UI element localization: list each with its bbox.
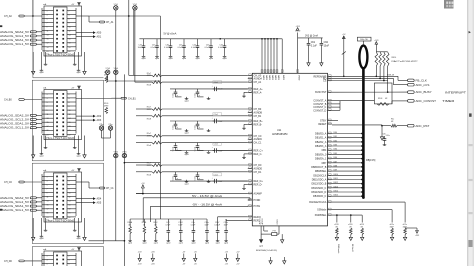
svg-text:agnd: agnd (128, 243, 132, 245)
svg-text:5: 5 (47, 18, 48, 20)
svg-text:15: 15 (47, 205, 49, 207)
svg-text:REF_D-: REF_D- (254, 184, 263, 187)
svg-text:2: 2 (69, 94, 70, 96)
svg-text:agnd: agnd (142, 58, 146, 60)
svg-text:19: 19 (47, 130, 49, 132)
svg-text:VTh1: VTh1 (114, 4, 118, 6)
svg-text:1: 1 (47, 94, 48, 96)
svg-text:DB9/BSEL: DB9/BSEL (315, 170, 327, 173)
svg-text:+5Vx: +5Vx (386, 135, 390, 137)
svg-text:DB6: DB6 (334, 157, 338, 159)
svg-text:agnd: agnd (185, 101, 189, 103)
svg-text:C1x0: C1x0 (195, 126, 197, 130)
svg-text:10: 10 (69, 27, 71, 29)
svg-text:1: 1 (47, 176, 48, 178)
svg-text:4: 4 (69, 180, 70, 182)
svg-text:8: 8 (69, 188, 70, 190)
svg-text:TIMER: TIMER (442, 99, 455, 103)
svg-text:agnd: agnd (77, 238, 81, 240)
svg-text:8168_08: 8168_08 (387, 74, 394, 76)
svg-text:C47: C47 (138, 44, 141, 46)
svg-text:DB12: DB12 (334, 182, 339, 184)
svg-text:49R9: 49R9 (147, 165, 151, 167)
svg-text:agnd: agnd (39, 72, 43, 74)
svg-text:+: + (212, 147, 213, 149)
svg-text:DB15/DO_C: DB15/DO_C (313, 195, 327, 198)
svg-text:ACKD1: ACKD1 (258, 218, 261, 224)
svg-text:DB4: DB4 (322, 149, 327, 152)
svg-text:DB12/SDO_B: DB12/SDO_B (312, 183, 327, 186)
svg-text:REF_B-: REF_B- (254, 123, 263, 126)
svg-text:agnd: agnd (223, 58, 227, 60)
svg-text:4: 4 (69, 14, 70, 16)
svg-text:C1x1: C1x1 (214, 114, 218, 116)
svg-text:DB5: DB5 (334, 153, 338, 155)
svg-text:agnd: agnd (185, 183, 189, 185)
svg-text:SSMode: SSMode (317, 209, 327, 212)
svg-text:ANALOG_SCL1_5V: ANALOG_SCL1_5V (0, 127, 30, 130)
svg-text:14: 14 (69, 118, 71, 120)
svg-text:CH_A1: CH_A1 (106, 21, 114, 24)
svg-text:DB13/SDO_C: DB13/SDO_C (311, 187, 326, 190)
svg-text:2: 2 (69, 176, 70, 178)
svg-text:REF_A-: REF_A- (254, 91, 263, 94)
svg-text:AVDD: AVDD (262, 75, 265, 81)
svg-text:C1x0: C1x0 (195, 93, 197, 97)
svg-text:74xx-17SGT-LD-S0x0: 74xx-17SGT-LD-S0x0 (46, 53, 75, 56)
svg-text:CH_B0: CH_B0 (4, 99, 12, 102)
svg-text:FT9: FT9 (273, 231, 276, 233)
svg-text:R103: R103 (378, 98, 382, 100)
svg-text:agnd: agnd (77, 72, 81, 74)
svg-text:agnd: agnd (154, 243, 158, 245)
svg-text:DB7: DB7 (334, 161, 338, 163)
svg-text:BLM2SHE(7x2xSD1D): BLM2SHE(7x2xSD1D) (256, 250, 277, 252)
svg-text:3: 3 (47, 259, 48, 261)
svg-text:ANALOG_SCL2_5V: ANALOG_SCL2_5V (0, 118, 30, 121)
svg-text:ADC_CONVST: ADC_CONVST (416, 99, 437, 103)
svg-text:3: 3 (47, 98, 48, 100)
svg-text:ANALOG_SDA2_5V: ANALOG_SDA2_5V (0, 197, 30, 200)
svg-text:agnd: agnd (39, 156, 43, 158)
svg-text:4: 4 (69, 98, 70, 100)
svg-text:HVDD: HVDD (254, 199, 261, 202)
svg-text:C1x0: C1x0 (173, 126, 175, 130)
svg-text:AD2: AD2 (97, 115, 102, 118)
svg-text:C43: C43 (206, 44, 209, 46)
svg-text:74xx-17SGT-LD-S0x0: 74xx-17SGT-LD-S0x0 (46, 219, 75, 222)
svg-text:agnd: agnd (77, 156, 81, 158)
svg-text:CH_A0: CH_A0 (4, 15, 12, 18)
svg-text:3: 3 (47, 14, 48, 16)
svg-text:C1x0: C1x0 (195, 176, 197, 180)
svg-text:CONVST_D: CONVST_D (313, 109, 326, 112)
svg-text:DB8/DOUT_B: DB8/DOUT_B (311, 166, 326, 169)
svg-text:0.1uF: 0.1uF (311, 44, 318, 47)
svg-text:-5V - -16.5V @ 4mA: -5V - -16.5V @ 4mA (192, 203, 223, 206)
svg-text:DB2: DB2 (334, 140, 338, 142)
svg-text:19: 19 (47, 213, 49, 215)
svg-text:49R9: 49R9 (147, 109, 151, 111)
svg-text:AVDD: AVDD (265, 75, 268, 81)
svg-text:VThy: VThy (108, 124, 112, 126)
svg-text:DB14: DB14 (334, 191, 339, 193)
svg-text:18: 18 (69, 43, 71, 45)
svg-text:16: 16 (69, 39, 71, 41)
svg-text:ANALOG_SCL2_5V: ANALOG_SCL2_5V (0, 35, 30, 38)
svg-text:+: + (212, 117, 213, 119)
svg-text:C1x1: C1x1 (214, 144, 218, 146)
svg-text:RANGE/XCLKA: RANGE/XCLKA (309, 201, 326, 204)
svg-text:C1x0: C1x0 (173, 147, 175, 151)
svg-text:49R9: 49R9 (104, 74, 108, 76)
svg-text:12: 12 (69, 114, 71, 116)
svg-text:6: 6 (69, 184, 70, 186)
svg-text:16: 16 (69, 205, 71, 207)
svg-text:1: 1 (47, 255, 48, 257)
svg-text:AD5: AD5 (97, 202, 102, 205)
svg-text:18: 18 (69, 126, 71, 128)
svg-text:ADC_nCS: ADC_nCS (416, 83, 430, 87)
svg-text:49R9: 49R9 (147, 136, 151, 138)
svg-text:CH_D0: CH_D0 (4, 260, 13, 263)
svg-text:PAR/BSEL: PAR/BSEL (315, 214, 327, 217)
svg-text:C1x0: C1x0 (173, 93, 175, 97)
svg-text:6: 6 (69, 263, 70, 265)
svg-text:11: 11 (47, 197, 49, 199)
svg-text:RB Hw/M: RB Hw/M (351, 244, 353, 252)
svg-text:DB4: DB4 (334, 149, 338, 151)
svg-text:DB14/SDO_D: DB14/SDO_D (311, 191, 326, 194)
svg-text:ACKD2: ACKD2 (261, 218, 264, 224)
svg-text:14: 14 (69, 35, 71, 37)
svg-text:BUSY/INT: BUSY/INT (315, 91, 327, 94)
svg-text:20: 20 (69, 213, 71, 215)
svg-text:ANALOG_SDA2_5V: ANALOG_SDA2_5V (0, 31, 30, 34)
svg-text:7: 7 (47, 22, 48, 24)
svg-text:ANALOG_SCL1_5V: ANALOG_SCL1_5V (0, 43, 30, 46)
svg-text:VTh6: VTh6 (122, 152, 126, 154)
svg-text:DB2/D2_A: DB2/D2_A (315, 141, 327, 144)
svg-text:DVDD: DVDD (295, 31, 301, 33)
svg-text:7: 7 (47, 188, 48, 190)
svg-text:9: 9 (47, 193, 48, 195)
svg-text:ANALOG_SCL1_5V: ANALOG_SCL1_5V (0, 209, 30, 212)
svg-text:5: 5 (47, 184, 48, 186)
svg-text:ADC_BUSY: ADC_BUSY (416, 90, 432, 94)
svg-text:ANALOG_SCL2_5V: ANALOG_SCL2_5V (0, 201, 30, 204)
svg-text:C44: C44 (192, 44, 195, 46)
svg-text:agnd: agnd (259, 245, 263, 247)
svg-text:15: 15 (47, 39, 49, 41)
svg-text:13: 13 (47, 201, 49, 203)
svg-text:C45: C45 (179, 44, 182, 46)
svg-text:74xx-17SGT-LD-S0x0: 74xx-17SGT-LD-S0x0 (46, 137, 75, 140)
svg-text:agnd: agnd (185, 154, 189, 156)
svg-text:VTh2: VTh2 (133, 4, 137, 6)
svg-text:20: 20 (69, 47, 71, 49)
svg-text:13: 13 (47, 35, 49, 37)
svg-text:agnd: agnd (209, 58, 213, 60)
svg-text:11: 11 (47, 31, 49, 33)
svg-text:agnd: agnd (205, 243, 209, 245)
svg-text:agnd: agnd (166, 243, 170, 245)
svg-text:19: 19 (47, 47, 49, 49)
svg-text:DB13: DB13 (334, 186, 339, 188)
svg-text:D80x YEL: D80x YEL (360, 39, 368, 41)
svg-text:15: 15 (47, 122, 49, 124)
svg-text:2: 2 (69, 255, 70, 257)
svg-text:AD1: AD1 (97, 36, 102, 39)
svg-text:12: 12 (69, 197, 71, 199)
svg-text:DB8: DB8 (334, 165, 338, 167)
svg-text:+3V3: +3V3 (374, 40, 378, 42)
svg-text:CH_C0: CH_C0 (4, 181, 13, 184)
svg-text:20: 20 (69, 130, 71, 132)
svg-text:10: 10 (69, 110, 71, 112)
svg-text:5V @ x0mA: 5V @ x0mA (164, 33, 177, 36)
svg-text:agnd: agnd (39, 238, 43, 240)
svg-text:1: 1 (47, 10, 48, 12)
svg-text:DB1/D1_A: DB1/D1_A (315, 137, 327, 140)
svg-text:5: 5 (47, 263, 48, 265)
svg-text:9: 9 (47, 27, 48, 29)
svg-text:RN10: RN10 (392, 57, 397, 59)
svg-text:R1x8: R1x8 (147, 85, 151, 87)
svg-text:HVSS: HVSS (254, 205, 261, 208)
svg-text:17: 17 (47, 209, 49, 211)
svg-text:DB6/DA_1: DB6/DA_1 (315, 158, 327, 161)
svg-text:2: 2 (69, 10, 70, 12)
svg-text:9: 9 (47, 110, 48, 112)
svg-text:agnd: agnd (142, 243, 146, 245)
svg-text:5V - 16.5V @ 4mA: 5V - 16.5V @ 4mA (192, 195, 223, 198)
svg-text:ASAMP: ASAMP (254, 193, 263, 196)
svg-text:RACTx4DYELW7P: RACTx4DYELW7P (392, 60, 419, 63)
svg-text:10uF: 10uF (324, 44, 330, 47)
svg-text:+: + (212, 178, 213, 180)
svg-text:CH_D1: CH_D1 (254, 171, 263, 174)
svg-text:8: 8 (69, 22, 70, 24)
svg-text:ANALOG_SDA2_5V: ANALOG_SDA2_5V (0, 114, 30, 117)
svg-text:RESET: RESET (318, 123, 327, 126)
svg-text:agnd: agnd (216, 243, 220, 245)
svg-text:13: 13 (47, 118, 49, 120)
svg-text:C42: C42 (219, 44, 222, 46)
svg-text:C1x1: C1x1 (214, 174, 218, 176)
svg-text:agnd: agnd (169, 58, 173, 60)
svg-text:3V3 @ 2mA: 3V3 @ 2mA (305, 35, 318, 38)
svg-text:agnd: agnd (179, 243, 183, 245)
svg-text:VTh4: VTh4 (114, 68, 118, 70)
svg-text:C1x0: C1x0 (195, 147, 197, 151)
svg-text:C1x1: C1x1 (214, 82, 218, 84)
svg-text:8: 8 (69, 106, 70, 108)
svg-text:AVDD: AVDD (271, 75, 274, 81)
svg-text:AD4: AD4 (97, 198, 102, 201)
svg-text:INTERRUPT: INTERRUPT (445, 91, 466, 95)
svg-text:DB10: DB10 (334, 174, 339, 176)
svg-text:DCKD: DCKD (277, 219, 279, 225)
svg-text:AVDD: AVDD (274, 75, 277, 81)
svg-text:agnd: agnd (191, 243, 195, 245)
svg-text:CH_C1: CH_C1 (106, 187, 115, 190)
svg-text:10: 10 (69, 193, 71, 195)
svg-text:C1x0: C1x0 (173, 176, 175, 180)
svg-text:CH_B1: CH_B1 (128, 97, 136, 100)
svg-text:DVDD: DVDD (298, 75, 300, 81)
svg-text:DB11: DB11 (334, 178, 338, 180)
svg-text:18: 18 (69, 209, 71, 211)
svg-text:17: 17 (47, 126, 49, 128)
svg-text:agnd: agnd (196, 58, 200, 60)
svg-text:REF_C-: REF_C- (254, 153, 263, 156)
svg-text:DB11/SDO_A: DB11/SDO_A (312, 179, 327, 182)
svg-text:DB5/DA_0: DB5/DA_0 (315, 153, 327, 156)
svg-text:agnd: agnd (155, 58, 159, 60)
svg-text:ADC_RST: ADC_RST (415, 124, 429, 128)
svg-text:CH_A1: CH_A1 (254, 81, 262, 84)
svg-text:R1x8: R1x8 (147, 145, 151, 147)
svg-text:DB3: DB3 (334, 145, 338, 147)
svg-text:DB15: DB15 (334, 195, 339, 197)
svg-text:49R9: 49R9 (147, 75, 151, 77)
svg-text:CH_B1: CH_B1 (254, 115, 262, 118)
svg-text:C47: C47 (152, 44, 155, 46)
svg-text:DB9: DB9 (334, 170, 338, 172)
svg-text:DB0: DB0 (334, 132, 338, 134)
svg-text:R1x8: R1x8 (147, 174, 151, 176)
svg-text:ANALOG_SDA1_5V: ANALOG_SDA1_5V (0, 39, 30, 42)
svg-text:AVDD: AVDD (277, 75, 280, 81)
svg-text:agnd: agnd (224, 243, 228, 245)
svg-text:DB[0:15]: DB[0:15] (366, 159, 376, 162)
svg-text:AD0: AD0 (97, 32, 102, 35)
svg-text:VThx: VThx (99, 124, 103, 126)
svg-text:R1x8: R1x8 (147, 118, 151, 120)
svg-text:agnd: agnd (185, 133, 189, 135)
svg-text:+3V3: +3V3 (295, 26, 299, 28)
svg-text:AVDD: AVDD (268, 75, 271, 81)
svg-text:3: 3 (47, 180, 48, 182)
svg-text:5: 5 (47, 102, 48, 104)
svg-text:11: 11 (47, 114, 49, 116)
svg-text:12: 12 (69, 31, 71, 33)
svg-text:AD3: AD3 (97, 119, 102, 122)
svg-text:C46: C46 (165, 44, 168, 46)
svg-text:14: 14 (69, 201, 71, 203)
svg-text:DB0/D0_A: DB0/D0_A (315, 133, 327, 136)
svg-text:DB3/D3_A: DB3/D3_A (315, 145, 327, 148)
svg-text:6: 6 (69, 18, 70, 20)
svg-text:U11: U11 (277, 129, 282, 132)
svg-text:16: 16 (69, 122, 71, 124)
svg-text:+: + (212, 85, 213, 87)
svg-text:7: 7 (47, 106, 48, 108)
svg-text:6: 6 (69, 102, 70, 104)
svg-text:ADS8548SPM: ADS8548SPM (272, 133, 287, 136)
svg-text:4: 4 (69, 259, 70, 261)
svg-text:DB1: DB1 (334, 136, 338, 138)
svg-text:REFIO: REFIO (254, 216, 261, 219)
svg-text:CH_C1: CH_C1 (254, 142, 263, 145)
svg-text:agnd: agnd (182, 58, 186, 60)
svg-text:AVDD: AVDD (282, 75, 285, 81)
svg-text:CS: CS (323, 80, 327, 83)
svg-text:ANALOG_SDA1_5V: ANALOG_SDA1_5V (0, 205, 30, 208)
svg-text:+3V3: +3V3 (415, 235, 419, 237)
svg-text:VTh3: VTh3 (106, 68, 110, 70)
svg-text:FWR/stable: FWR/stable (337, 244, 340, 253)
svg-text:ANALOG_SDA1_5V: ANALOG_SDA1_5V (0, 123, 30, 126)
svg-text:VTh5: VTh5 (114, 152, 118, 154)
svg-text:DB7: DB7 (322, 162, 327, 165)
svg-text:DB10/SCLK: DB10/SCLK (313, 174, 326, 177)
svg-text:49R9: 49R9 (104, 106, 108, 108)
svg-text:17: 17 (47, 43, 49, 45)
